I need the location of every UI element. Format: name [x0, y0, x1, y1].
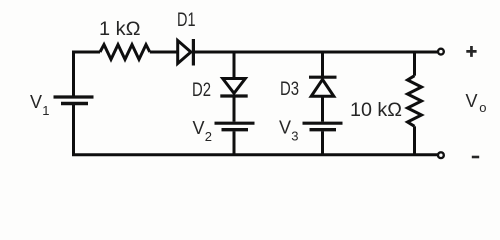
label: + polarity mark [466, 46, 476, 57]
battery V1 negative (short) plate [61, 102, 88, 105]
resistor R2 10 kΩ vertical zigzag [408, 76, 422, 127]
wire: R1 to D1 anode [150, 51, 178, 54]
diode D1 (series, pointing right): anode triangle [178, 41, 191, 64]
svg-text:V: V [193, 118, 205, 138]
label: - polarity mark [472, 156, 479, 159]
resistor R1 1 kΩ zigzag [100, 45, 150, 60]
wire: V3 to bottom rail [321, 131, 324, 155]
wire: D2 cathode to battery V2 [233, 98, 236, 122]
svg-text:o: o [479, 100, 486, 115]
wire: V2 to bottom rail [233, 131, 236, 155]
node: + output terminal (open circle) [438, 49, 444, 55]
diode D1 cathode bar [192, 39, 195, 66]
svg-text:D1: D1 [177, 10, 196, 31]
battery V1 positive (long) plate [54, 95, 94, 98]
battery V3 negative (short) plate [310, 128, 337, 131]
wire: D2 branch from top rail down to D2 anode [233, 52, 236, 79]
wire: load branch from top rail down to resistor R2 [413, 52, 416, 76]
svg-text:D3: D3 [280, 79, 299, 100]
svg-text:3: 3 [291, 129, 298, 144]
svg-text:V: V [279, 118, 291, 138]
svg-text:D2: D2 [192, 80, 211, 101]
wire: top-left corner (left vertical down to V1 + top rail left segment) [74, 52, 101, 96]
wire: D3 branch from top rail down to D3 cathode [321, 52, 324, 76]
wire: D3 anode to battery V3 [321, 96, 324, 121]
wire: V1 negative plate down + bottom rail to - output terminal [74, 105, 438, 155]
diode D2 cathode bar [220, 94, 247, 97]
svg-text:V: V [466, 91, 478, 111]
battery V2 negative (short) plate [222, 128, 249, 131]
wire: R2 to bottom rail [413, 126, 416, 154]
wire: top rail from D1 cathode to + output terminal [193, 51, 437, 54]
node: - output terminal (open circle) [438, 152, 444, 158]
diode D3 anode triangle (apex up) [311, 80, 334, 97]
battery V3 positive (long) plate [303, 122, 343, 125]
battery V2 positive (long) plate [215, 122, 255, 125]
svg-text:1: 1 [42, 103, 49, 118]
svg-text:1 kΩ: 1 kΩ [99, 19, 141, 40]
svg-text:V: V [30, 92, 42, 112]
svg-text:2: 2 [205, 129, 212, 144]
diode D3 cathode bar (cathode at top, diode points up) [309, 76, 337, 79]
diode D2 (pointing down): anode triangle [223, 79, 246, 94]
svg-text:10 kΩ: 10 kΩ [350, 100, 402, 121]
